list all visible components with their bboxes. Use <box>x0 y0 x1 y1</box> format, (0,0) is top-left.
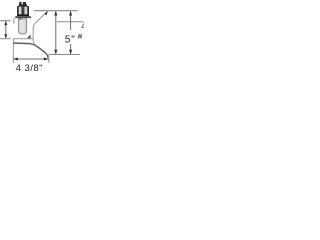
bottom dim left arrow <box>13 58 18 61</box>
dim A up arrow <box>54 11 57 16</box>
flange <box>15 16 31 18</box>
bell left side <box>12 43 14 54</box>
bell top edge <box>13 38 33 40</box>
bottom dim left ext vertical <box>12 54 14 63</box>
svg-text:4 3/8": 4 3/8" <box>16 63 43 74</box>
bottom right extension line <box>49 54 80 56</box>
left top extension line <box>0 20 11 22</box>
bottom dim right ext vertical <box>48 55 50 63</box>
dim B up arrow <box>69 11 72 16</box>
flange left stub edge <box>13 18 15 24</box>
knob knurled body <box>17 6 29 14</box>
top extension line <box>34 10 78 12</box>
second right extension line <box>57 21 84 23</box>
knob bottom bar <box>17 14 29 16</box>
bottom dim right arrow <box>44 58 49 61</box>
dim line B lower <box>70 44 72 54</box>
bell right vertical and diagonal edge <box>33 11 47 45</box>
svg-text:4: 4 <box>81 21 84 31</box>
knob cap screw blobs <box>19 2 21 5</box>
left dim up arrow <box>4 21 7 25</box>
svg-text:5": 5" <box>65 34 76 45</box>
dim B down arrow <box>69 50 72 55</box>
dim line A <box>55 11 57 54</box>
bell rim curve <box>30 44 48 58</box>
bottom dimension line <box>14 58 49 60</box>
left dim down arrow <box>4 34 7 38</box>
stem shadow under flange <box>19 18 27 20</box>
stem <box>19 18 27 34</box>
left bottom extension line <box>0 38 11 40</box>
wedge hub shadow <box>27 35 31 39</box>
dim A down arrow <box>54 50 57 55</box>
bell left corner edge <box>13 39 15 43</box>
left dimension line <box>5 21 7 38</box>
bell rim upper lip <box>13 42 30 45</box>
cropped right label quote <box>79 34 82 38</box>
dim line B upper <box>70 11 72 30</box>
knob cap bar <box>19 4 27 6</box>
diagonal arrowhead <box>45 11 48 16</box>
